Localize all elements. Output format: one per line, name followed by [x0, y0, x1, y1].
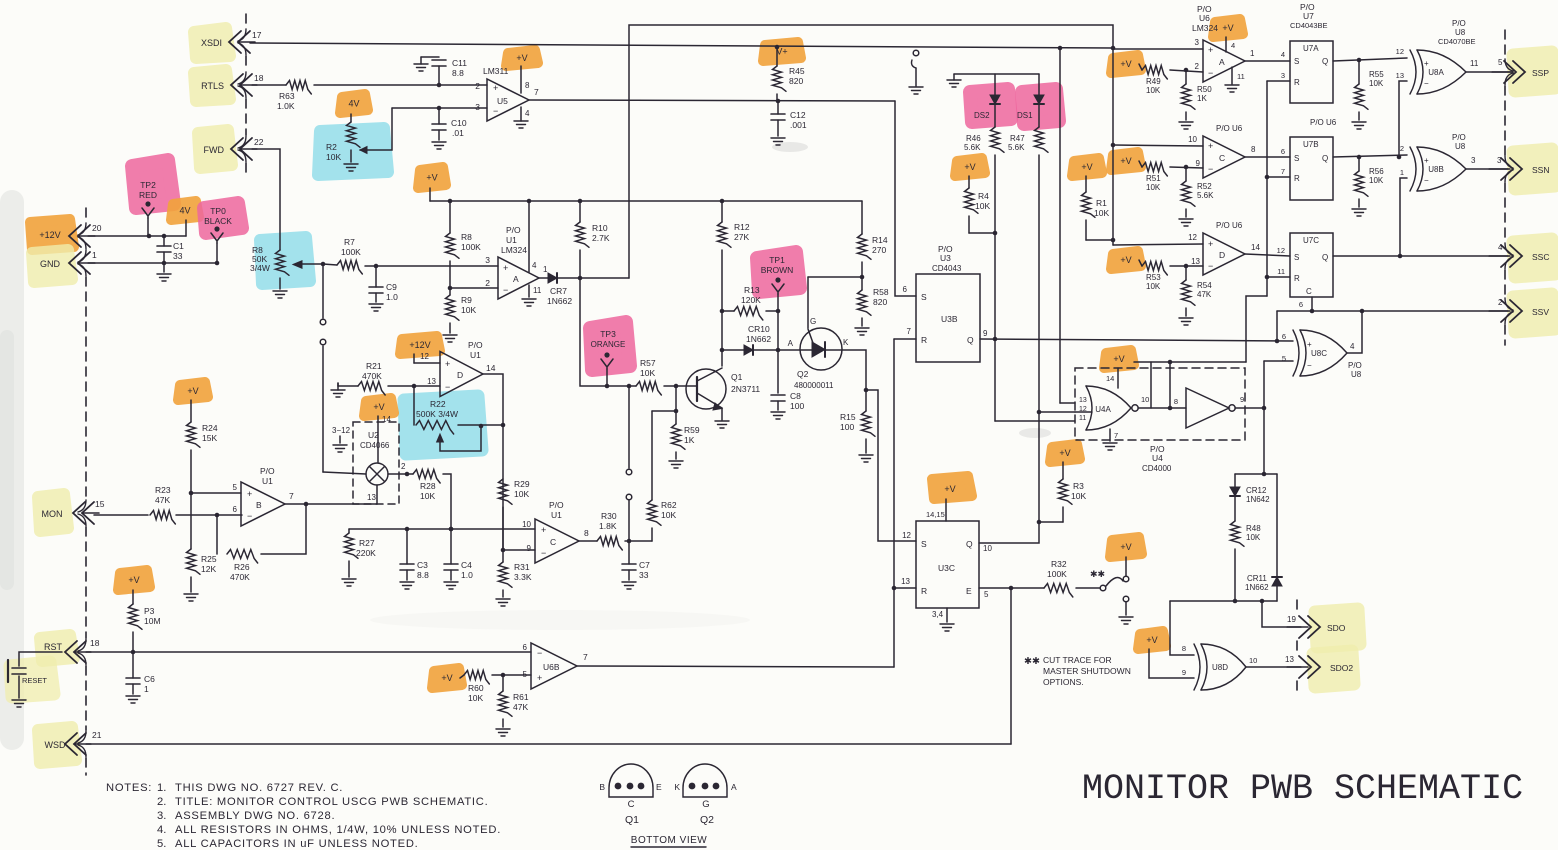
svg-text:ORANGE: ORANGE	[591, 340, 626, 349]
+V at R49	[1120, 59, 1131, 69]
svg-text:5: 5	[1498, 58, 1503, 67]
ground pins 3,4 of U3C	[932, 608, 954, 631]
svg-text:C3: C3	[417, 560, 428, 570]
notes block	[106, 782, 501, 850]
resistor R47 5.6K	[1008, 127, 1048, 152]
wire R7 to U1A pin 3	[365, 264, 498, 269]
op-amp U1D	[427, 340, 496, 397]
wire DS2 column to U4A pin 11	[993, 155, 1075, 421]
svg-text:−: −	[1208, 164, 1213, 174]
svg-text:100K: 100K	[461, 242, 481, 252]
wire to SDO connector	[1262, 601, 1301, 627]
svg-text:Q: Q	[1322, 154, 1328, 163]
highlighter mark	[404, 396, 482, 454]
svg-text:+V: +V	[1120, 156, 1131, 166]
svg-text:10M: 10M	[144, 616, 161, 626]
svg-text:6: 6	[1282, 332, 1286, 341]
wire U5 output pin 7 rail	[529, 87, 895, 101]
svg-text:18: 18	[90, 638, 100, 648]
wire U7C E pin to SSV line	[1299, 297, 1314, 313]
wire rail corner into R14	[861, 201, 863, 234]
highlighter mark	[1111, 251, 1141, 269]
resistor R10 2.7K	[576, 201, 610, 278]
svg-text:9: 9	[527, 544, 532, 553]
svg-text:U8: U8	[1455, 28, 1466, 37]
SDO connector dashed boundary	[1296, 600, 1298, 695]
svg-text:15K: 15K	[202, 433, 217, 443]
highlighter mark	[178, 382, 208, 400]
svg-text:4: 4	[1498, 243, 1503, 252]
highlighter mark	[418, 167, 446, 188]
svg-text:2: 2	[401, 462, 406, 471]
svg-text:D: D	[457, 370, 463, 380]
resistor R56 10K	[1355, 157, 1385, 207]
wire pin13 node to R22	[413, 386, 415, 425]
wire inverter out	[1235, 407, 1264, 409]
svg-text:1: 1	[1250, 49, 1255, 58]
svg-text:U8D: U8D	[1212, 663, 1228, 672]
svg-text:P/O U6: P/O U6	[1310, 118, 1337, 127]
wire U6D out	[1245, 243, 1290, 256]
svg-text:9: 9	[1182, 668, 1186, 677]
svg-text:R28: R28	[420, 481, 436, 491]
svg-text:1: 1	[92, 250, 97, 260]
highlighter mark	[118, 570, 150, 590]
wire U7B Q to U8B	[1333, 155, 1407, 160]
svg-text:A: A	[788, 339, 794, 348]
svg-text:21: 21	[92, 730, 102, 740]
wire U7 reset line	[1246, 81, 1290, 362]
svg-text:CR11: CR11	[1247, 574, 1267, 583]
svg-text:10: 10	[1188, 135, 1197, 144]
+V supply at R1	[1081, 162, 1092, 192]
wire R30 node	[625, 539, 652, 544]
svg-text:−: −	[493, 106, 498, 116]
svg-text:+V: +V	[1146, 635, 1157, 645]
svg-text:C4: C4	[461, 560, 472, 570]
resistor R23 47K	[150, 485, 175, 524]
svg-text:K: K	[843, 338, 849, 347]
svg-text:WSD: WSD	[45, 740, 66, 750]
svg-text:15: 15	[95, 499, 105, 509]
ground at R21	[331, 383, 345, 397]
resistor R32 100K	[1044, 559, 1073, 597]
svg-text:+: +	[1307, 340, 1312, 349]
wire Q2 K to U3C S	[842, 350, 916, 541]
svg-text:1N662: 1N662	[1245, 583, 1269, 592]
svg-text:SSV: SSV	[1532, 307, 1549, 317]
ground wire for DS diodes	[947, 74, 1039, 87]
highlighter mark	[260, 237, 310, 284]
op-amp U1A LM324	[485, 225, 539, 299]
svg-text:7: 7	[534, 87, 539, 97]
potentiometer R8 50K 3/4W	[250, 245, 323, 289]
svg-text:U2: U2	[368, 430, 379, 440]
svg-text:4: 4	[1281, 50, 1285, 59]
resistor R60 10K	[460, 671, 489, 704]
svg-text:−: −	[541, 548, 546, 558]
svg-text:4: 4	[1350, 342, 1355, 351]
capacitor C1 .33	[157, 236, 184, 263]
ground at R25	[184, 594, 198, 601]
svg-text:R: R	[1294, 78, 1300, 87]
svg-text:R8: R8	[461, 232, 472, 242]
svg-text:R47: R47	[1010, 134, 1025, 143]
connector GND pin 1	[40, 250, 97, 274]
svg-text:10K: 10K	[661, 510, 676, 520]
svg-text:U7C: U7C	[1303, 236, 1319, 245]
ground at C12	[771, 138, 785, 145]
resistor R13 120K	[722, 285, 778, 320]
svg-text:27K: 27K	[734, 232, 749, 242]
ground at U4A pin 7	[1103, 429, 1118, 450]
wire to U6D pin 12	[1113, 233, 1203, 245]
svg-text:R24: R24	[202, 423, 218, 433]
wire to U6A pin 3	[1113, 48, 1203, 50]
svg-text:14: 14	[1106, 374, 1114, 383]
svg-text:CD4043BE: CD4043BE	[1290, 21, 1328, 30]
svg-text:SSC: SSC	[1532, 252, 1549, 262]
wire U3C E node	[979, 586, 1044, 599]
svg-text:+V: +V	[128, 575, 139, 585]
highlighter mark	[32, 250, 72, 282]
svg-text:820: 820	[873, 297, 887, 307]
wire R49 to U6A pin 2	[1170, 68, 1203, 73]
wire pot wiper node	[321, 262, 337, 267]
resistor R28 10K	[413, 470, 440, 502]
XOR gate U8D	[1194, 644, 1257, 690]
bottom view label	[631, 835, 707, 847]
svg-text:R1: R1	[1096, 198, 1107, 208]
latch U7A	[1281, 2, 1333, 103]
svg-text:P/O: P/O	[1452, 133, 1466, 142]
svg-text:220K: 220K	[356, 548, 376, 558]
svg-text:XSDI: XSDI	[201, 38, 222, 48]
ground at R9	[443, 335, 457, 342]
highlighter mark	[1315, 609, 1360, 647]
wire U8D pin 8 feed	[1170, 601, 1194, 655]
resistor R55 10K	[1355, 60, 1385, 120]
wire U8D out to SDO2	[1246, 655, 1301, 667]
ground at C3	[400, 582, 414, 589]
svg-text:+: +	[537, 673, 542, 683]
svg-text:12: 12	[1188, 233, 1197, 242]
highlighter mark	[970, 89, 1011, 122]
note cut trace	[1024, 655, 1131, 687]
svg-text:−: −	[1424, 79, 1429, 88]
svg-text:S: S	[921, 292, 927, 302]
test point TP3 ORANGE	[591, 329, 626, 388]
svg-text:14: 14	[1251, 243, 1260, 252]
highlighter mark	[506, 50, 538, 66]
svg-text:LM311: LM311	[483, 66, 509, 76]
svg-text:3: 3	[485, 255, 490, 265]
svg-text:MONITOR PWB SCHEMATIC: MONITOR PWB SCHEMATIC	[1082, 769, 1523, 809]
highlighter mark	[198, 130, 232, 168]
op-amp U6A	[1192, 4, 1245, 82]
+V supply at R60	[441, 673, 452, 683]
svg-text:R13: R13	[744, 285, 760, 295]
svg-text:6: 6	[233, 505, 238, 514]
svg-text:+V: +V	[373, 402, 384, 412]
ground at R52	[1179, 219, 1193, 226]
ground at R8 pot	[273, 291, 287, 298]
wire gnd to R21	[338, 383, 358, 386]
svg-text:6: 6	[1299, 300, 1303, 309]
diode CR12 1N642	[1230, 474, 1270, 521]
svg-text:CD4066: CD4066	[360, 441, 390, 450]
wire U1A output	[539, 265, 548, 278]
svg-text:3/4W: 3/4W	[250, 263, 270, 273]
wire R22 to U1D out column	[458, 423, 505, 428]
highlighter mark	[194, 28, 230, 58]
diode CR10 1N662	[720, 324, 800, 355]
P/O U4 CD4000 label	[1142, 444, 1172, 473]
svg-text:R53: R53	[1146, 273, 1161, 282]
svg-text:18: 18	[254, 73, 264, 83]
svg-text:R52: R52	[1197, 182, 1212, 191]
svg-text:CD4043: CD4043	[932, 264, 962, 273]
resistor R31 3.3K	[499, 562, 532, 597]
op-amp U6B	[523, 643, 577, 689]
ground at R55	[1352, 122, 1366, 129]
pins 3-12 grounded on U2	[332, 426, 351, 452]
svg-text:R55: R55	[1369, 70, 1384, 79]
svg-text:R62: R62	[661, 500, 677, 510]
svg-text:D: D	[1219, 250, 1225, 260]
ground at C10	[432, 142, 446, 149]
highlighter mark	[1111, 55, 1141, 73]
svg-text:R10: R10	[592, 223, 608, 233]
highlighter mark	[590, 322, 630, 370]
svg-text:4V: 4V	[348, 99, 359, 109]
svg-text:1.0: 1.0	[461, 570, 473, 580]
wire RST line	[86, 650, 531, 655]
highlighter mark	[194, 70, 230, 101]
resistor R45 820	[773, 66, 805, 101]
svg-text:R22: R22	[430, 399, 446, 409]
svg-text:+V: +V	[1059, 448, 1070, 458]
test point TP1 BROWN	[761, 255, 794, 311]
svg-text:12: 12	[1277, 246, 1285, 255]
connector XSDI pin 17	[201, 30, 262, 53]
svg-text:C1: C1	[173, 241, 184, 251]
svg-text:TP1: TP1	[769, 255, 785, 265]
svg-text:47K: 47K	[513, 702, 528, 712]
svg-text:19: 19	[1287, 615, 1296, 624]
wire U3C E down to WSD line	[1010, 588, 1012, 744]
svg-text:10K: 10K	[975, 201, 990, 211]
transistor Q1 2N3711	[676, 368, 760, 420]
highlighter mark	[1138, 631, 1166, 649]
svg-text:1N662: 1N662	[547, 296, 572, 306]
+V supply at P3	[128, 575, 139, 604]
svg-text:+: +	[247, 489, 252, 499]
wire WSD line	[86, 743, 1011, 745]
wire R28 to C4 column	[443, 474, 453, 531]
svg-text:SDO: SDO	[1327, 623, 1346, 633]
wire U3B Q output	[980, 329, 1293, 343]
svg-text:TP2: TP2	[140, 180, 156, 190]
highlighter mark	[400, 336, 440, 354]
wire DS1 column	[1038, 155, 1040, 412]
ground at R59	[669, 461, 683, 468]
svg-text:R31: R31	[514, 562, 530, 572]
highlighter mark	[132, 160, 174, 208]
connector SSN pin 3	[1489, 158, 1549, 180]
svg-text:8: 8	[525, 81, 530, 90]
wire TP1 column	[776, 309, 781, 393]
wire U8B out to SSN	[1466, 156, 1508, 169]
connector MON pin 15	[42, 499, 105, 524]
ground at Q1 emitter	[715, 421, 729, 428]
resistor R53 10K	[1139, 260, 1167, 291]
svg-text:MON: MON	[42, 509, 63, 519]
svg-text:2: 2	[475, 81, 480, 91]
svg-text:470K: 470K	[362, 371, 382, 381]
svg-text:+: +	[503, 263, 508, 273]
svg-text:R45: R45	[789, 66, 805, 76]
svg-text:R54: R54	[1197, 281, 1212, 290]
svg-text:P3: P3	[144, 606, 155, 616]
ground at R27	[342, 579, 356, 586]
svg-text:ALL CAPACITORS IN uF UNLESS NO: ALL CAPACITORS IN uF UNLESS NOTED.	[175, 838, 419, 850]
svg-text:4V: 4V	[179, 206, 190, 216]
wire GND rail	[88, 261, 219, 266]
latch U7B	[1281, 118, 1337, 200]
resistor P3 10M	[129, 604, 161, 652]
wire U7A Q to U8A	[1333, 58, 1407, 63]
svg-text:CD4000: CD4000	[1142, 464, 1172, 473]
svg-text:C: C	[550, 537, 556, 547]
svg-text:13: 13	[1191, 257, 1200, 266]
wire U3C S pin label	[902, 531, 911, 540]
svg-text:11: 11	[1277, 267, 1285, 276]
wire R12 to Q1 collector	[720, 309, 725, 366]
svg-text:BROWN: BROWN	[761, 265, 794, 275]
connector SDO pin 19	[1287, 616, 1346, 638]
left connector dashed boundary (main)	[78, 208, 86, 775]
svg-text:9: 9	[1196, 159, 1201, 168]
svg-text:C7: C7	[639, 560, 650, 570]
ground at C4	[444, 582, 458, 589]
svg-text:R23: R23	[155, 485, 171, 495]
svg-text:3−12: 3−12	[332, 426, 351, 435]
wire U8A out to SSP	[1466, 58, 1513, 72]
svg-text:U4: U4	[1152, 453, 1163, 463]
svg-text:C10: C10	[451, 118, 467, 128]
svg-text:+: +	[1208, 239, 1213, 249]
inverter U4B	[1174, 388, 1244, 428]
connector SSC pin 4	[1489, 243, 1549, 267]
svg-text:−: −	[537, 648, 542, 658]
wire U3B R pin	[892, 327, 916, 667]
svg-text:100: 100	[790, 401, 804, 411]
svg-text:✱✱: ✱✱	[1090, 569, 1105, 579]
ground at C1	[157, 263, 171, 281]
svg-text:+V: +V	[1222, 23, 1233, 33]
right connector dashed boundary	[1505, 30, 1513, 345]
wire R51 to U6C pin 9	[1170, 165, 1203, 170]
svg-text:14,15: 14,15	[926, 510, 945, 519]
svg-text:U4A: U4A	[1095, 405, 1111, 414]
wire XSDI feed to U4A pin 13	[1058, 46, 1075, 403]
highlighter mark	[40, 635, 74, 661]
ground option jumper	[1119, 596, 1133, 624]
svg-text:P/O: P/O	[549, 500, 564, 510]
svg-text:P/O U6: P/O U6	[1216, 221, 1243, 230]
resistor R24 15K	[187, 422, 218, 493]
wire XSDI rail	[250, 43, 1113, 48]
svg-text:S: S	[1294, 154, 1299, 163]
svg-text:NOTES:: NOTES:	[106, 782, 152, 794]
svg-text:R58: R58	[873, 287, 889, 297]
wire summing node row	[349, 527, 535, 532]
analog switch U2 CD4066	[353, 422, 406, 504]
wire R60 to U6B pin 5	[492, 673, 531, 678]
NOR gate U4A	[1037, 386, 1139, 430]
LED DS1	[1017, 74, 1044, 127]
svg-text:CR7: CR7	[550, 286, 567, 296]
svg-text:6: 6	[1281, 147, 1285, 156]
resistor R46 5.6K	[964, 127, 1004, 152]
resistor R21 470K	[358, 361, 385, 395]
svg-text:U1: U1	[551, 510, 562, 520]
svg-text:U7A: U7A	[1303, 44, 1319, 53]
XOR gate U8B	[1400, 144, 1466, 191]
svg-text:470K: 470K	[230, 572, 250, 582]
highlighter mark	[30, 219, 74, 250]
wire U8B pin1 feed	[1400, 178, 1407, 256]
wire R45 to U5 rail	[776, 99, 781, 114]
latch U7C	[1277, 233, 1333, 297]
wire U1D output down	[483, 374, 505, 562]
highlighter mark	[1513, 149, 1555, 189]
svg-text:U7: U7	[1303, 11, 1314, 21]
svg-text:.01: .01	[452, 128, 464, 138]
svg-text:1.0K: 1.0K	[277, 101, 295, 111]
svg-text:C6: C6	[144, 674, 155, 684]
svg-text:47K: 47K	[155, 495, 170, 505]
svg-text:2: 2	[1400, 144, 1404, 153]
svg-text:R61: R61	[513, 692, 529, 702]
svg-text:R12: R12	[734, 222, 750, 232]
cut-trace arc	[1106, 577, 1123, 586]
wire gate feed to Q2	[807, 277, 809, 328]
svg-text:8.8: 8.8	[417, 570, 429, 580]
svg-text:R9: R9	[461, 295, 472, 305]
wire R23 to U1B pin 6	[176, 513, 242, 518]
svg-text:R7: R7	[344, 237, 355, 247]
highlighter mark	[1022, 89, 1059, 124]
svg-text:TITLE: MONITOR CONTROL USCG PW: TITLE: MONITOR CONTROL USCG PWB SCHEMATI…	[175, 796, 488, 808]
ground at R31	[496, 599, 510, 606]
svg-text:Q1: Q1	[731, 372, 743, 382]
svg-text:10K: 10K	[468, 693, 483, 703]
svg-text:R26: R26	[234, 562, 250, 572]
wire U1B output	[285, 491, 377, 504]
resistor R54 47K	[1182, 266, 1213, 316]
svg-text:R49: R49	[1146, 77, 1161, 86]
svg-text:4.: 4.	[157, 824, 166, 836]
ground at R2	[344, 164, 358, 171]
svg-text:U1: U1	[470, 350, 481, 360]
svg-text:10K: 10K	[640, 368, 655, 378]
connector SSV pin 2	[1489, 300, 1549, 322]
potentiometer R22 500K 3/4W	[416, 399, 483, 451]
svg-text:7: 7	[289, 491, 294, 501]
wire R63 to U5 pin 2	[314, 84, 487, 86]
